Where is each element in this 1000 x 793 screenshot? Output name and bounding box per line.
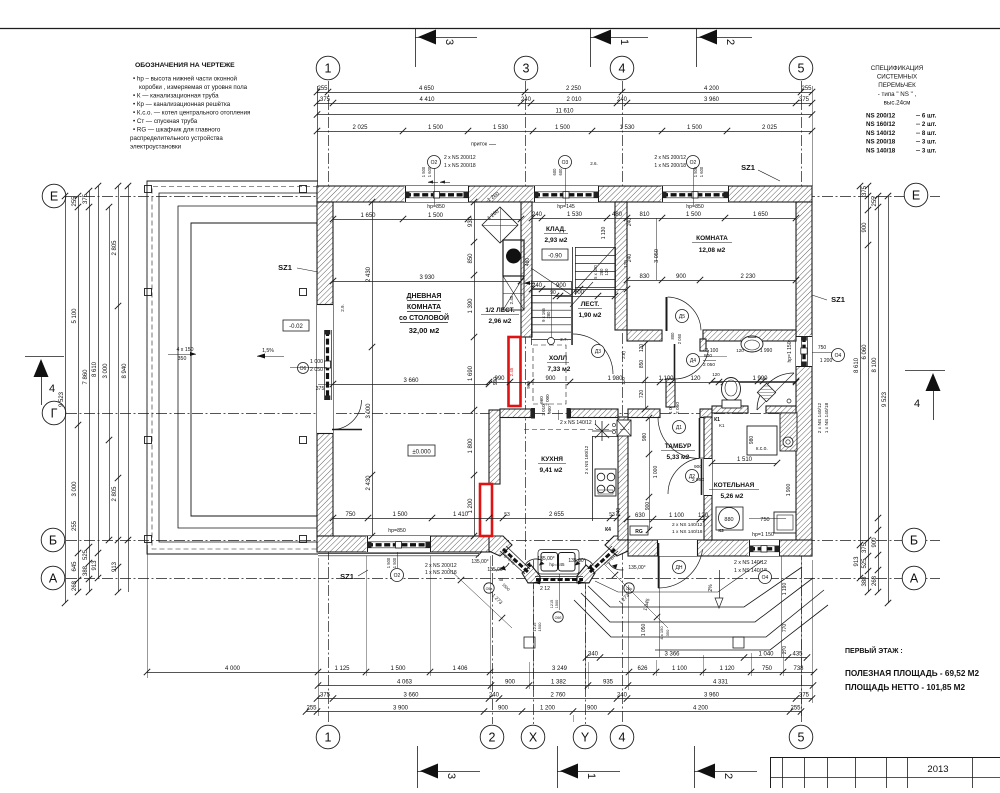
bath west wall below door [666,379,675,407]
svg-text:255: 255 [72,196,78,207]
svg-text:ДН: ДН [676,565,683,571]
svg-text:hp=845: hp=845 [549,562,565,567]
shower corner [757,373,794,410]
bay window glazing left [503,549,528,572]
svg-text:2 010: 2 010 [541,404,546,416]
section arrow 1 top [590,28,592,67]
svg-text:90: 90 [550,290,556,296]
svg-text:930: 930 [468,216,474,227]
svg-text:1 500: 1 500 [555,125,571,131]
svg-text:120: 120 [690,376,701,382]
svg-text:1: 1 [585,773,597,779]
svg-text:• К — канализационная труба: • К — канализационная труба [133,93,219,100]
svg-text:375: 375 [799,97,810,103]
svg-text:120: 120 [712,372,720,377]
svg-text:ХОЛЛ: ХОЛЛ [549,355,568,362]
svg-text:2.6): 2.6) [621,351,626,359]
grid circle A left [41,566,65,590]
svg-text:340: 340 [588,652,599,658]
vent star [592,421,612,441]
svg-text:1 500: 1 500 [686,212,702,218]
section arrow 3 bottom [417,746,419,788]
svg-text:350: 350 [665,629,670,636]
svg-text:NS 160/12: NS 160/12 [866,121,896,128]
entry door DN leaf [658,543,660,588]
svg-text:4: 4 [619,731,626,745]
svg-text:3 960: 3 960 [704,693,720,699]
svg-text:NS 140/18: NS 140/18 [866,147,896,154]
svg-text:1 190: 1 190 [782,583,788,596]
svg-text:Г: Г [51,407,58,421]
svg-text:600: 600 [552,168,557,176]
svg-text:8 940: 8 940 [122,363,128,379]
top dimension row 1 [317,92,812,94]
svg-text:2 x NS 140/12: 2 x NS 140/12 [734,560,767,566]
door posts kitchen/hall [531,408,535,419]
svg-text:900: 900 [872,537,878,548]
terrace slope arrow [257,356,284,358]
hall dashed duct [524,429,629,431]
svg-text:К4: К4 [605,527,611,533]
svg-text:135,00°: 135,00° [537,556,554,562]
svg-text:А: А [49,572,58,586]
door D4 arc [674,350,709,379]
svg-text:268: 268 [72,580,78,591]
svg-text:1 900: 1 900 [786,484,792,497]
top border line [0,28,1000,30]
svg-text:2: 2 [722,773,734,779]
terrace outer outline [147,181,318,554]
fireplace box [503,240,524,276]
svg-text:2 250: 2 250 [566,86,582,92]
svg-text:9 523: 9 523 [882,391,888,407]
lintel marker O2 left [428,156,441,169]
svg-text:4: 4 [914,398,920,410]
svg-text:распределительного устройства: распределительного устройства [130,135,223,142]
svg-text:3 960: 3 960 [704,97,720,103]
svg-text:СИСТЕМНЫХ: СИСТЕМНЫХ [877,74,917,81]
svg-text:900: 900 [545,376,556,382]
section arrow 4 left [25,356,64,358]
svg-text:2 230: 2 230 [740,274,756,280]
svg-text:1 406: 1 406 [452,666,468,672]
svg-text:1: 1 [618,39,630,45]
svg-text:53: 53 [609,512,615,518]
svg-text:2: 2 [724,39,736,45]
grid circle 2 bottom [480,725,504,749]
fireplace hearth hatched [503,276,524,310]
O5b marker line [397,552,399,568]
section arrow 1 bottom [557,746,559,788]
living dim row top [333,219,521,221]
window O3 top (stairs) [533,186,598,202]
svg-text:2 430: 2 430 [366,266,372,282]
svg-text:270: 270 [782,646,788,655]
svg-text:388: 388 [862,576,868,587]
grid axis 4 vertical [622,81,624,724]
svg-text:ТАМБУР: ТАМБУР [665,443,692,450]
svg-text:626: 626 [637,666,648,672]
svg-text:1 410: 1 410 [453,512,469,518]
bay steps to porch [588,567,802,607]
svg-text:255: 255 [317,86,328,92]
svg-text:3 000: 3 000 [72,481,78,497]
svg-text:2 655: 2 655 [549,512,565,518]
svg-text:3 660: 3 660 [403,378,419,384]
svg-text:9,41 м2: 9,41 м2 [540,467,563,474]
svg-text:hp=1 150: hp=1 150 [752,532,774,538]
hall wardrobe dashed [533,345,566,404]
stairs diagonal divider [531,268,571,295]
svg-text:1 500: 1 500 [386,557,391,568]
svg-text:ПЕРЕМЬЧЕК: ПЕРЕМЬЧЕК [878,82,916,89]
svg-text:1 000: 1 000 [653,466,659,479]
svg-text:2 050: 2 050 [675,402,681,414]
svg-text:2013: 2013 [927,764,948,775]
door D5 leaf [666,297,668,331]
svg-text:2.45: 2.45 [509,295,514,304]
svg-text:280: 280 [546,311,551,319]
window O6 label left [298,363,309,374]
svg-text:9 523: 9 523 [59,391,65,407]
circle DN [673,561,686,574]
internal wall kitchen/tambour vertical [618,417,628,540]
grid circle B right [902,528,926,552]
internal wall klad/room (vertical) [615,202,627,330]
exterior wall bottom right (tambour+boiler) [628,540,812,556]
red lintel SZ highlight 1 [509,337,521,406]
grid circle 4 top [610,56,634,80]
svg-text:1 382: 1 382 [551,680,567,686]
svg-text:900: 900 [676,274,687,280]
svg-text:900: 900 [862,222,868,233]
hall dim row [489,382,796,384]
svg-text:ПОЛЕЗНАЯ ПЛОЩАДЬ - 69,52 М2: ПОЛЕЗНАЯ ПЛОЩАДЬ - 69,52 М2 [845,669,980,678]
exterior wall top [317,186,812,202]
svg-text:268: 268 [872,575,878,586]
svg-text:990: 990 [493,377,499,386]
svg-text:1 650: 1 650 [753,212,769,218]
svg-text:О2: О2 [431,160,438,166]
svg-text:375: 375 [799,693,810,699]
bottom dimension row 3900 [306,711,801,713]
svg-text:388: 388 [83,565,89,576]
svg-text:-- 6 шт.: -- 6 шт. [916,113,937,120]
svg-text:2 x NS 200/12: 2 x NS 200/12 [444,155,476,161]
svg-text:3: 3 [523,62,530,76]
extension lines left plan [147,545,149,678]
bay window glazing right [590,549,615,572]
internal wall tambour/boiler vertical [704,417,712,540]
svg-text:8 100: 8 100 [872,357,878,373]
bottom dimension row long [147,672,814,674]
svg-text:1 125: 1 125 [334,666,350,672]
svg-text:240: 240 [617,97,628,103]
grid circle E left [42,184,66,208]
internal wall under room (horizontal left) [627,330,662,341]
internal wall bath/boiler horizontal [712,406,748,413]
svg-text:3 050: 3 050 [654,249,660,263]
bay corner wall bottom-right [577,565,595,583]
svg-text:4 063: 4 063 [397,680,413,686]
bath dim row [712,381,796,383]
right dimension columns [860,186,862,578]
window O2 top (room) [661,186,728,202]
bay diagonal dim line right 1273 [604,564,668,628]
svg-text:О2: О2 [394,573,401,579]
svg-text:750: 750 [762,666,773,672]
O4 porch marker [759,571,772,584]
svg-text:hp=1 150: hp=1 150 [787,341,793,362]
svg-text:980: 980 [749,436,755,445]
svg-text:О3: О3 [562,160,569,166]
svg-text:240: 240 [627,218,633,227]
svg-text:900: 900 [574,290,585,296]
svg-text:КОТЕЛЬНАЯ: КОТЕЛЬНАЯ [714,482,755,489]
level mark +-0.000 [408,445,435,456]
svg-text:NS 200/12: NS 200/12 [866,113,896,120]
grid circle X bottom [521,725,545,749]
terrace dashed overhang [152,187,318,550]
svg-text:1: 1 [325,731,332,745]
svg-text:135,00°: 135,00° [628,565,645,571]
window bottom boiler [748,540,779,556]
grid axis G horizontal [66,413,812,415]
svg-text:K1: K1 [719,423,725,428]
svg-text:255: 255 [790,706,801,712]
internal wall kitchen north left [500,409,531,418]
svg-text:375: 375 [862,542,868,553]
svg-text:8 610: 8 610 [854,357,860,373]
svg-text:240: 240 [532,212,543,218]
svg-text:2 x NS 200/12: 2 x NS 200/12 [654,155,686,161]
svg-text:1 100: 1 100 [672,666,688,672]
living dim row 3660 [333,384,489,386]
terrace step 3 [178,206,318,528]
svg-text:255: 255 [801,86,812,92]
internal wall kitchen north right [571,409,619,418]
svg-text:7 860: 7 860 [83,369,89,385]
svg-text:1500: 1500 [555,600,559,608]
door arc left wall [332,429,362,431]
svg-text:1,5%: 1,5% [262,348,274,354]
svg-text:1 500: 1 500 [392,557,397,568]
circle 880 [716,507,743,530]
bay angle arc left inner [525,559,543,566]
svg-text:120: 120 [736,348,744,353]
svg-text:Б: Б [49,534,57,548]
bay window markers [484,583,494,593]
internal wall living/stairs upper [521,202,532,337]
svg-text:1 x NS 200/18: 1 x NS 200/18 [654,163,686,169]
svg-text:120: 120 [639,344,645,353]
svg-text:SZ1: SZ1 [741,163,755,172]
bay corner wall right [605,536,628,556]
section arrow 2 bottom [694,746,696,788]
svg-text:• Ст — спускная труба: • Ст — спускная труба [133,118,198,125]
svg-text:2 760: 2 760 [550,693,566,699]
stairs dim row [532,289,627,291]
svg-text:-- 2 шт.: -- 2 шт. [916,121,937,128]
svg-text:-0.02: -0.02 [289,324,303,330]
svg-text:2 025: 2 025 [762,125,778,131]
niche stub right [700,339,706,351]
svg-text:900: 900 [498,706,509,712]
grid circle A right [902,566,926,590]
svg-text:1 x NS 200/18: 1 x NS 200/18 [425,570,457,576]
svg-text:КУХНЯ: КУХНЯ [541,456,563,463]
svg-text:hp=850: hp=850 [427,204,445,210]
svg-text:2 050: 2 050 [692,477,704,483]
svg-text:1 050: 1 050 [641,624,647,637]
grid axis Y vertical bottom [585,560,587,724]
svg-text:5: 5 [798,62,805,76]
svg-text:800: 800 [670,332,675,340]
svg-text:2 025: 2 025 [352,125,368,131]
svg-text:240: 240 [616,508,622,517]
window O2 top (living) [404,186,468,202]
red lintel SZ highlight 2 [480,484,492,536]
hall door arc to stairs [573,334,613,374]
svg-text:2,93 м2: 2,93 м2 [545,237,568,244]
svg-text:1 200: 1 200 [820,358,833,364]
svg-text:2 x NS 200/12: 2 x NS 200/12 [425,563,457,569]
svg-text:Е: Е [912,189,920,203]
top dimension row 3 [317,114,812,116]
svg-text:3 000: 3 000 [366,403,372,419]
svg-text:1 100: 1 100 [706,348,719,354]
boiler kco [747,426,777,455]
svg-text:2%: 2% [708,584,714,592]
svg-text:1 120: 1 120 [719,666,735,672]
porch inner edge [595,561,762,592]
svg-text:к.с.о.: к.с.о. [756,446,768,452]
svg-text:1: 1 [325,62,332,76]
grid circle 1 top [316,56,340,80]
svg-text:1 x NS 140/18: 1 x NS 140/18 [824,402,830,433]
svg-text:255: 255 [872,196,878,207]
grid circle G left [42,401,66,425]
svg-text:2: 2 [489,731,496,745]
section arrow 2 top [696,28,698,67]
svg-text:1 650: 1 650 [360,213,376,219]
svg-text:1 530: 1 530 [567,212,583,218]
section arrow 3 top [415,28,417,67]
svg-text:О2: О2 [690,160,697,166]
svg-text:720: 720 [639,390,645,399]
toilet [722,378,741,401]
svg-text:Е: Е [50,190,58,204]
svg-text:525: 525 [83,549,89,560]
top dimension row 2 [317,103,812,105]
svg-text:120: 120 [698,513,709,519]
svg-text:hp=850: hp=850 [686,204,704,210]
door D4 leaf [674,344,676,379]
svg-text:1 600: 1 600 [699,166,704,177]
svg-text:-- 3 шт.: -- 3 шт. [916,139,937,146]
RG box [630,526,648,535]
svg-text:1 200: 1 200 [468,498,474,514]
grid axis 2 vertical bottom [492,555,494,724]
svg-text:255: 255 [306,706,317,712]
svg-text:±0.000: ±0.000 [412,450,431,456]
svg-text:900: 900 [556,283,567,289]
svg-text:Д1: Д1 [676,425,682,431]
living vertical dim x372 [372,202,374,536]
tambour dim row [627,519,706,521]
svg-text:hp=850: hp=850 [388,528,406,534]
svg-text:850: 850 [639,360,645,369]
svg-text:• К.с.о. — котел центрального: • К.с.о. — котел центрального отопления [133,110,250,117]
svg-text:1 x NS 200/18: 1 x NS 200/18 [444,163,476,169]
svg-text:SZ1: SZ1 [278,263,292,272]
bay corner wall left [489,536,512,556]
svg-text:913: 913 [112,561,118,572]
svg-text:выс.24см: выс.24см [884,99,911,106]
svg-text:1215: 1215 [550,600,554,608]
svg-text:1 130: 1 130 [601,227,607,240]
svg-text:750: 750 [760,517,769,523]
svg-text:-- 3 шт.: -- 3 шт. [916,147,937,154]
door D5 arc [668,297,701,330]
grid circle E right [904,183,928,207]
svg-text:2.7.: 2.7. [560,337,568,342]
internal wall under room (horizontal right) [703,330,796,341]
svg-text:А: А [910,572,919,586]
heater hatched [780,413,797,451]
grid axis 5 vertical [801,81,803,724]
terrace level mark [283,320,309,331]
svg-text:3: 3 [443,39,455,45]
terrace inner platform [191,223,318,516]
stairs upper flight [575,247,615,249]
grid circle 1 bottom [316,725,340,749]
svg-text:Д4: Д4 [690,358,696,364]
svg-text:• RG — шкафчик для главного: • RG — шкафчик для главного [133,127,221,134]
window bottom living [366,536,430,552]
svg-text:4 650: 4 650 [419,86,435,92]
door arc D1 [699,418,701,458]
exterior wall left [317,202,333,536]
svg-text:RG: RG [635,529,643,535]
svg-text:525: 525 [862,558,868,569]
svg-text:935: 935 [603,680,614,686]
svg-text:5,26 м2: 5,26 м2 [721,493,744,500]
svg-text:2 050: 2 050 [703,362,715,368]
svg-text:5 100: 5 100 [72,308,78,324]
svg-text:960: 960 [539,396,544,404]
svg-text:4: 4 [619,62,626,76]
svg-text:ПЕРВЫЙ ЭТАЖ :: ПЕРВЫЙ ЭТАЖ : [845,646,903,655]
living vertical dim x474 [474,202,476,536]
svg-text:2 x NS 140/12: 2 x NS 140/12 [560,420,592,426]
svg-text:48: 48 [499,577,504,582]
vent leader [524,283,535,285]
svg-text:1 530: 1 530 [619,125,635,131]
top dimension row 4 [317,131,812,133]
grid circle 4 bottom [610,725,634,749]
svg-text:2 050: 2 050 [677,333,682,344]
svg-text:32,00 м2: 32,00 м2 [409,326,440,335]
svg-text:255: 255 [72,520,78,531]
bay window seat [541,553,558,572]
svg-text:913: 913 [92,560,98,571]
bay angle arc right inner [576,559,594,566]
level mark -0.90 [542,249,568,260]
svg-text:1 200: 1 200 [540,706,556,712]
svg-text:К3: К3 [718,528,724,533]
svg-text:электроустановки: электроустановки [130,144,182,151]
